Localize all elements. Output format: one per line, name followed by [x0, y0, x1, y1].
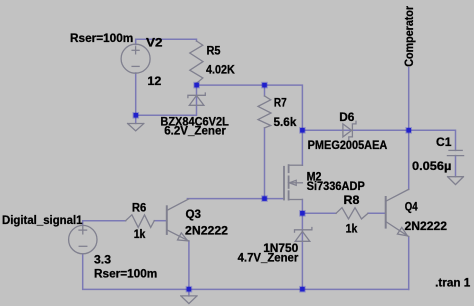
- svg-text:C1: C1: [436, 135, 452, 149]
- svg-text:R5: R5: [207, 44, 221, 58]
- svg-text:1k: 1k: [346, 221, 358, 235]
- svg-text:Comperator: Comperator: [402, 6, 416, 67]
- svg-text:Q4: Q4: [405, 200, 418, 214]
- svg-text:6.2V_Zener: 6.2V_Zener: [164, 123, 226, 137]
- svg-text:PMEG2005AEA: PMEG2005AEA: [308, 138, 388, 152]
- svg-text:R6: R6: [132, 200, 146, 214]
- svg-text:Digital_signal1: Digital_signal1: [2, 213, 83, 227]
- svg-text:4.7V_Zener: 4.7V_Zener: [238, 250, 299, 264]
- svg-text:12: 12: [147, 74, 161, 88]
- svg-text:Si7336ADP: Si7336ADP: [307, 179, 365, 193]
- svg-text:D6: D6: [339, 110, 354, 124]
- svg-text:2N2222: 2N2222: [405, 219, 448, 233]
- svg-text:V2: V2: [146, 35, 163, 49]
- svg-text:1k: 1k: [134, 227, 146, 241]
- svg-text:0.056µ: 0.056µ: [412, 159, 451, 173]
- svg-text:R8: R8: [344, 193, 360, 207]
- svg-text:4.02K: 4.02K: [206, 62, 235, 76]
- svg-text:2N2222: 2N2222: [185, 224, 228, 238]
- svg-text:Q3: Q3: [186, 207, 202, 221]
- svg-text:R7: R7: [274, 96, 287, 110]
- svg-text:.tran 1: .tran 1: [435, 275, 470, 289]
- svg-text:3.3: 3.3: [94, 253, 111, 267]
- svg-text:Rser=100m: Rser=100m: [70, 31, 133, 45]
- svg-text:5.6k: 5.6k: [274, 115, 297, 129]
- svg-text:Rser=100m: Rser=100m: [94, 266, 157, 280]
